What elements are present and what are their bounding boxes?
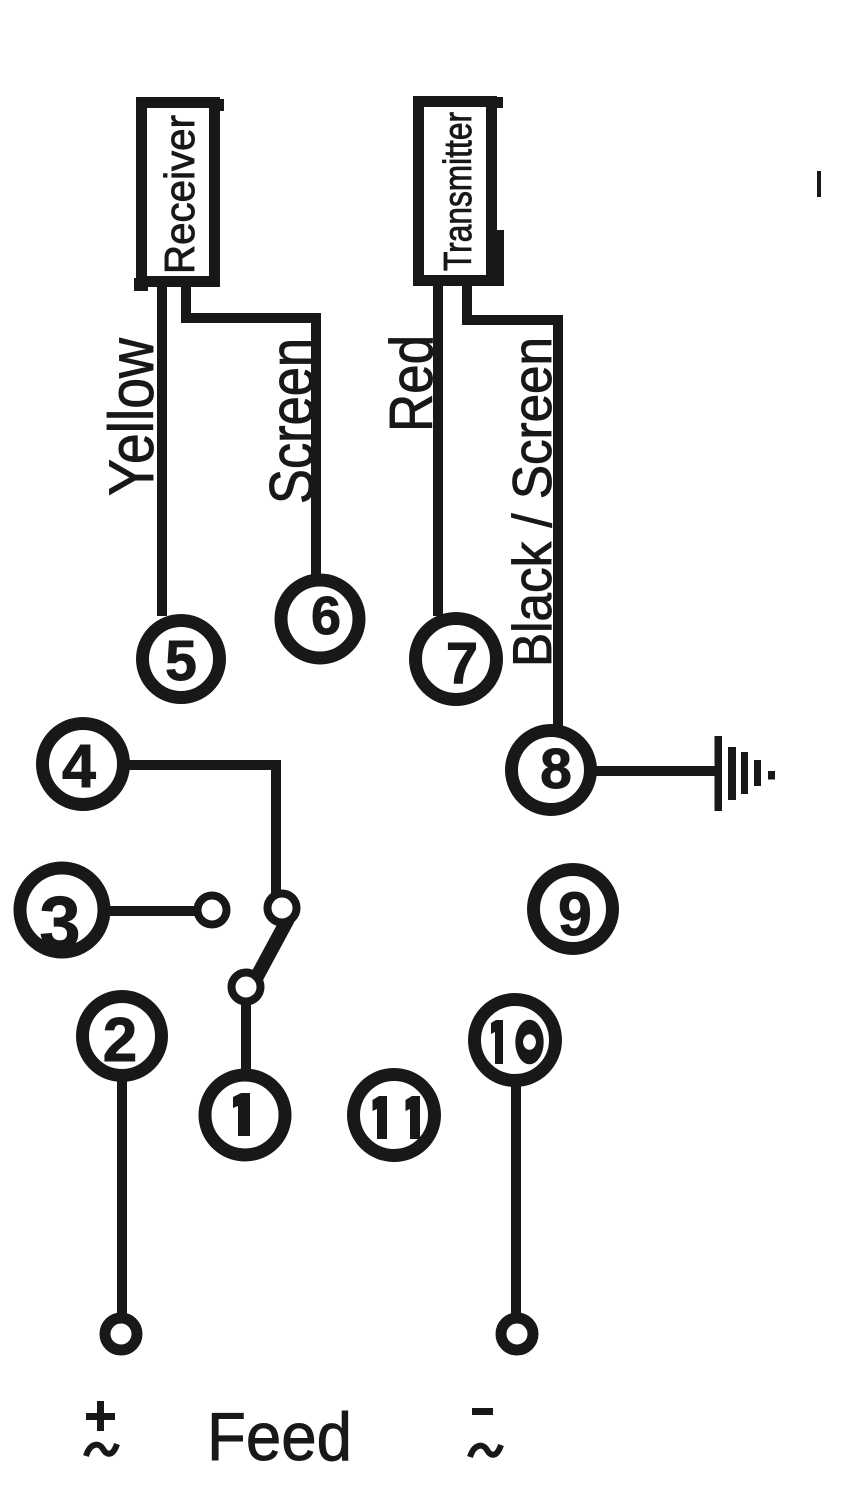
wire terminal 10 to feed minus node: [511, 1084, 521, 1318]
terminal 5: [143, 621, 220, 698]
svg-text:6: 6: [311, 586, 341, 646]
svg-text:Black / Screen: Black / Screen: [501, 337, 563, 667]
label minus ac tilde: [470, 1445, 501, 1457]
label plus: [86, 1401, 115, 1431]
label plus ac tilde: [86, 1444, 117, 1456]
switch lever: [254, 919, 288, 982]
feed minus terminal node: [501, 1318, 533, 1350]
svg-text:Yellow: Yellow: [97, 338, 167, 496]
terminal 8: [512, 731, 591, 810]
wire terminal 2 to feed plus node: [117, 1080, 127, 1318]
label minus: [472, 1408, 493, 1415]
switch lower node: [232, 973, 261, 1002]
svg-text:5: 5: [165, 629, 197, 693]
feed plus terminal node: [105, 1318, 137, 1350]
wire yellow (receiver pin to terminal 5): [157, 283, 167, 616]
wire terminal 4 to switch pivot: [125, 765, 276, 895]
terminal 6: [281, 580, 359, 658]
svg-text:Screen: Screen: [258, 338, 327, 504]
terminal 4: [43, 724, 124, 805]
wire black/screen (transmitter pin to terminal 8): [467, 283, 558, 728]
svg-text:2: 2: [103, 1006, 137, 1075]
svg-text:Transmitter: Transmitter: [437, 112, 480, 271]
svg-text:8: 8: [540, 737, 572, 801]
terminal 1: [205, 1075, 285, 1155]
wire terminal 8 to ground: [595, 766, 716, 776]
wire switch lower node to terminal 1: [241, 1000, 251, 1072]
svg-text:Receiver: Receiver: [156, 115, 203, 274]
transmitter box: [419, 97, 505, 286]
terminal 10: [475, 1000, 556, 1081]
ground: [715, 736, 776, 811]
svg-text:4: 4: [62, 732, 96, 800]
svg-text:7: 7: [446, 631, 478, 696]
terminal 7: [416, 619, 497, 700]
terminal 3: [20, 868, 104, 964]
terminal 2: [83, 997, 162, 1076]
svg-text:Feed: Feed: [207, 1399, 352, 1475]
svg-text:3: 3: [39, 881, 80, 964]
switch pivot node: [268, 894, 297, 923]
terminal 11: [354, 1075, 435, 1156]
receiver box: [134, 99, 224, 291]
wire screen (receiver pin to terminal 6): [186, 283, 316, 576]
svg-text:9: 9: [558, 880, 592, 948]
switch open contact node: [198, 896, 227, 925]
svg-text:Red: Red: [378, 335, 445, 432]
stray tick mark top right: [817, 171, 821, 197]
wire red (transmitter pin to terminal 7): [433, 283, 443, 616]
terminal 9: [534, 870, 613, 949]
wire terminal 3 to switch open contact: [104, 906, 198, 916]
